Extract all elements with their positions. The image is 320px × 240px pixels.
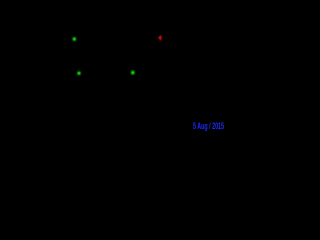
svg-text:5 Aug / 2015: 5 Aug / 2015	[193, 121, 224, 131]
green LED D3 core	[78, 72, 81, 75]
green LED D4 glow	[131, 71, 134, 74]
red LED D2 glow	[160, 36, 162, 41]
red LED D2 core	[159, 36, 162, 40]
green LED D3 glow	[78, 72, 81, 75]
green LED D1 glow	[73, 38, 76, 41]
green LED D1 core	[73, 38, 76, 41]
green LED D4 core	[132, 71, 135, 74]
red LED D2 tail	[160, 40, 161, 42]
